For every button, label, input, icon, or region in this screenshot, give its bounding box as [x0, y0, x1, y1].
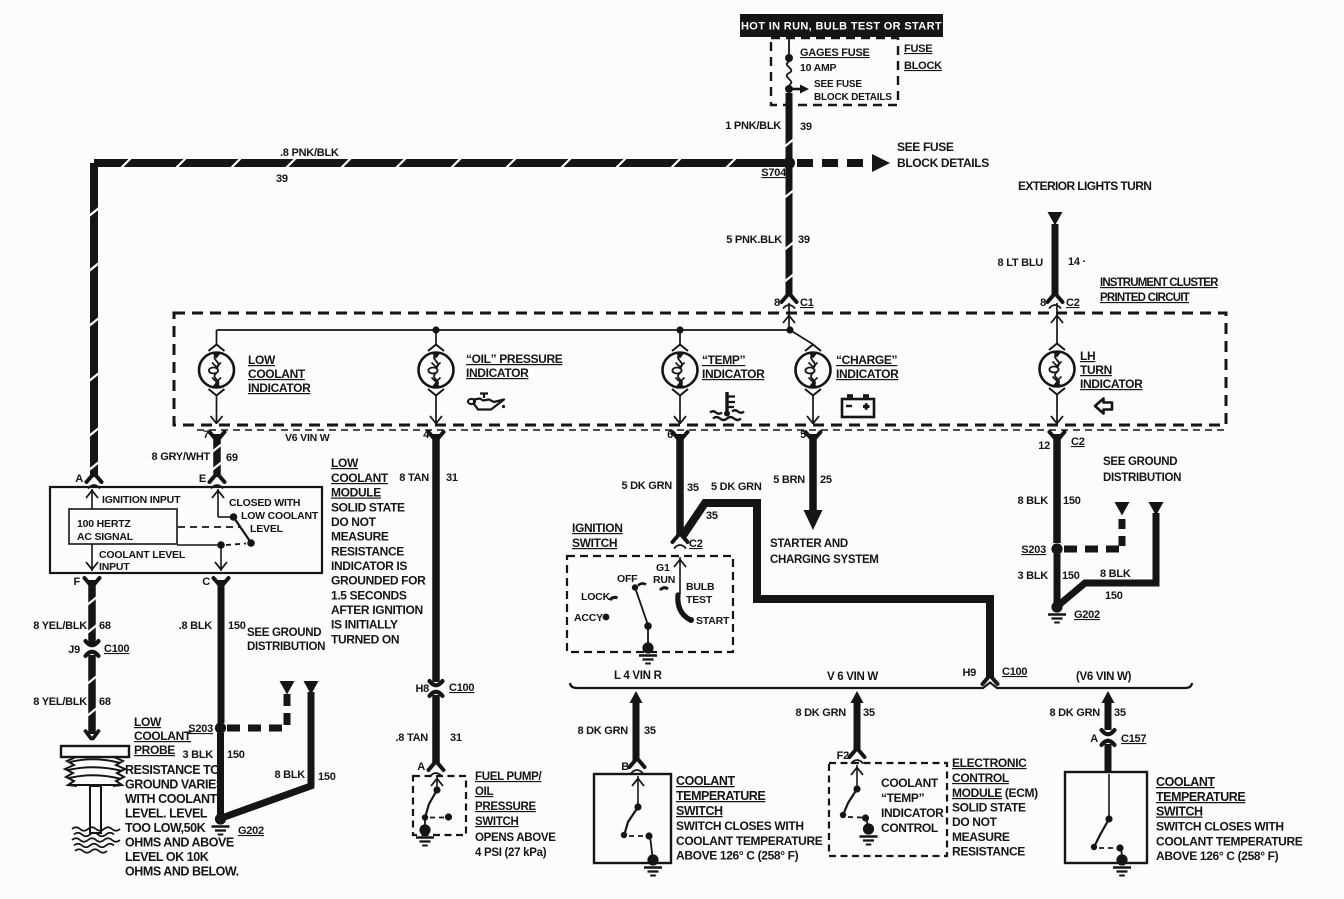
connector C2 pin 8 — [1040, 295, 1080, 309]
svg-text:LOW COOLANT: LOW COOLANT — [241, 510, 319, 522]
splice S203 left — [188, 722, 226, 735]
label LH TURN INDICATOR — [1080, 349, 1143, 391]
svg-text:150: 150 — [227, 749, 245, 761]
wire 8 BLK from G202 up to arrow — [223, 692, 314, 818]
lamp LOW COOLANT INDICATOR — [199, 330, 234, 424]
svg-text:8: 8 — [774, 297, 780, 309]
arrow see fuse block details (inside box) — [792, 85, 809, 94]
wire bus inside cluster — [217, 329, 791, 331]
ground at fuel pump switch — [416, 824, 434, 845]
svg-text:COOLANT TEMPERATURE: COOLANT TEMPERATURE — [676, 834, 823, 848]
wire inner box to C node — [177, 544, 220, 546]
svg-text:5 DK GRN: 5 DK GRN — [711, 481, 762, 493]
ground G202 left — [212, 813, 265, 837]
instrument cluster printed circuit dashed box — [174, 313, 1226, 425]
label 8 DK GRN 35 right — [1049, 707, 1125, 719]
svg-text:FUSE: FUSE — [904, 43, 932, 55]
electronic control module dashed box — [829, 763, 947, 856]
pin 6 connector at cluster — [667, 429, 687, 441]
svg-text:8 YEL/BLK: 8 YEL/BLK — [33, 696, 87, 708]
svg-text:A: A — [75, 473, 83, 485]
connector C100 J9 — [68, 641, 129, 656]
svg-text:C2: C2 — [1071, 436, 1085, 448]
svg-text:39: 39 — [800, 121, 812, 133]
svg-text:C2: C2 — [689, 538, 703, 550]
wire 3 BLK S203 to G202 — [217, 733, 224, 815]
svg-text:DO NOT: DO NOT — [952, 815, 998, 829]
svg-text:CHARGING SYSTEM: CHARGING SYSTEM — [770, 554, 879, 566]
arrow ground distribution right-1 — [1115, 502, 1130, 516]
svg-text:INPUT: INPUT — [99, 561, 130, 573]
label COOLANT TEMPERATURE SWITCH right — [1156, 775, 1303, 863]
svg-text:E: E — [199, 473, 206, 485]
svg-text:C100: C100 — [1002, 666, 1027, 678]
label 8 BLK 150 diag — [274, 769, 335, 783]
label 5 DK GRN 35 branch — [706, 481, 762, 522]
label G1 RUN — [653, 562, 675, 586]
wire 5 PNK.BLK (S704 to C1) — [784, 168, 794, 296]
svg-text:8 TAN: 8 TAN — [399, 472, 429, 484]
svg-text:RESISTANCE TO: RESISTANCE TO — [125, 763, 220, 777]
svg-text:5 BRN: 5 BRN — [773, 474, 805, 486]
label SEE GROUND DISTRIBUTION left — [247, 627, 325, 653]
svg-text:8 DK GRN: 8 DK GRN — [795, 707, 846, 719]
low coolant module box U1 — [50, 487, 322, 573]
svg-text:1.5 SECONDS: 1.5 SECONDS — [331, 589, 407, 603]
label IGNITION SWITCH — [572, 521, 623, 550]
svg-text:3 BLK: 3 BLK — [182, 749, 213, 761]
svg-text:8 DK GRN: 8 DK GRN — [577, 725, 628, 737]
svg-text:RESISTANCE: RESISTANCE — [331, 545, 404, 559]
svg-text:C100: C100 — [449, 682, 474, 694]
splice S704 — [783, 157, 795, 169]
lamp "TEMP" INDICATOR — [663, 330, 698, 424]
wire 8 TAN (pin 4 to H8) — [432, 434, 440, 682]
svg-text:3 BLK: 3 BLK — [1017, 570, 1048, 582]
pin 12 connector C2 at cluster — [1038, 432, 1084, 452]
svg-text:C1: C1 — [800, 297, 814, 309]
fuse block dashed box — [771, 38, 898, 105]
wire dashed to see fuse block details — [797, 154, 890, 172]
svg-text:SWITCH: SWITCH — [1156, 805, 1203, 819]
node fuse bottom — [785, 85, 793, 93]
svg-text:PRINTED CIRCUIT: PRINTED CIRCUIT — [1100, 292, 1190, 304]
svg-text:INDICATOR: INDICATOR — [1080, 377, 1143, 391]
icon oil can — [468, 394, 505, 410]
svg-text:31: 31 — [446, 472, 458, 484]
svg-text:IGNITION INPUT: IGNITION INPUT — [102, 494, 181, 506]
wire 5 DK GRN branch to H9 — [682, 503, 990, 678]
svg-text:GAGES FUSE: GAGES FUSE — [800, 47, 870, 59]
label .8 PNK/BLK 39 — [276, 147, 339, 185]
label FUEL PUMP/ OIL PRESSURE SWITCH — [475, 771, 556, 859]
svg-text:35: 35 — [687, 482, 699, 494]
label SEE FUSE BLOCK DETAILS (inside box) — [814, 79, 892, 103]
svg-text:LEVEL: LEVEL — [250, 523, 284, 535]
svg-text:“TEMP”: “TEMP” — [881, 791, 925, 805]
svg-text:G1: G1 — [656, 562, 670, 574]
svg-text:S203: S203 — [188, 723, 213, 735]
wire 8 DK GRN to coolant temp switch B — [630, 691, 643, 761]
svg-text:DO NOT: DO NOT — [331, 515, 377, 529]
svg-text:G202: G202 — [1074, 609, 1100, 621]
coolant temperature switch box left — [594, 774, 671, 863]
label 100 HERTZ AC SIGNAL — [77, 518, 134, 543]
bulb test to start arc — [678, 595, 690, 620]
svg-text:TEMPERATURE: TEMPERATURE — [676, 789, 765, 803]
pin A of low coolant module — [75, 473, 101, 489]
pin F of module — [74, 576, 100, 588]
arrow to ground distribution right — [304, 681, 319, 695]
pin C of module — [202, 576, 228, 588]
node fuse top — [785, 54, 793, 62]
connector C100 H8 — [415, 681, 474, 696]
svg-text:.8 TAN: .8 TAN — [395, 732, 428, 744]
svg-text:GROUNDED FOR: GROUNDED FOR — [331, 574, 426, 588]
label 5 DK GRN 35 — [621, 480, 698, 494]
svg-text:COOLANT TEMPERATURE: COOLANT TEMPERATURE — [1156, 835, 1303, 849]
svg-text:39: 39 — [798, 234, 810, 246]
module switch contact upper — [230, 513, 238, 521]
svg-text:4 PSI (27 kPa): 4 PSI (27 kPa) — [475, 847, 547, 859]
wire 8 LT BLU — [1052, 224, 1059, 296]
wire 5 DK GRN (pin 6 to ignition switch C2) — [676, 434, 684, 536]
svg-text:39: 39 — [276, 173, 288, 185]
fuel pump switch internals — [422, 777, 452, 827]
fuse GAGES FUSE element — [787, 62, 792, 85]
ground at coolant temp switch right — [1113, 854, 1131, 875]
wire 5 BRN (pin 5 to starter) — [809, 434, 817, 512]
svg-text:SOLID STATE: SOLID STATE — [331, 501, 405, 515]
svg-text:68: 68 — [99, 696, 111, 708]
wire stub to left arrow — [284, 694, 291, 725]
contact OFF — [632, 583, 646, 590]
wire 8 DK GRN to C157 — [1102, 691, 1115, 730]
label "OIL" PRESSURE INDICATOR — [466, 352, 563, 380]
svg-text:5 PNK.BLK: 5 PNK.BLK — [726, 234, 782, 246]
svg-text:31: 31 — [450, 732, 462, 744]
svg-text:SWITCH: SWITCH — [475, 816, 519, 828]
dashed link node to lower contact — [226, 544, 246, 546]
svg-text:25: 25 — [820, 474, 832, 486]
pin 7 connector at cluster — [203, 429, 224, 441]
svg-text:“CHARGE”: “CHARGE” — [836, 353, 898, 367]
svg-text:OHMS AND BELOW.: OHMS AND BELOW. — [125, 865, 239, 879]
svg-text:.8 PNK/BLK: .8 PNK/BLK — [280, 147, 339, 159]
svg-text:LOW: LOW — [134, 715, 162, 729]
svg-text:IS INITIALLY: IS INITIALLY — [331, 618, 398, 632]
wire .8 TAN (H8 to fuel pump switch) — [432, 695, 440, 764]
pin E of low coolant module — [199, 473, 225, 489]
splice S203 right — [1021, 543, 1062, 556]
label .8 BLK 150 — [179, 620, 246, 632]
svg-text:INDICATOR: INDICATOR — [466, 366, 529, 380]
svg-text:8 DK GRN: 8 DK GRN — [1049, 707, 1100, 719]
coolant temp switch internals right — [1091, 774, 1124, 857]
ignition switch feed lead — [674, 557, 686, 594]
svg-text:35: 35 — [644, 725, 656, 737]
svg-text:INDICATOR: INDICATOR — [836, 367, 899, 381]
engine harness line — [570, 683, 1192, 689]
svg-text:CLOSED WITH: CLOSED WITH — [229, 497, 300, 509]
svg-text:J9: J9 — [68, 644, 80, 656]
svg-text:ABOVE 126° C (258° F): ABOVE 126° C (258° F) — [676, 849, 799, 863]
wire 8 YEL/BLK upper (F to J9) — [87, 580, 97, 644]
svg-text:OFF: OFF — [617, 573, 638, 585]
wire 1 PNK/BLK (fuse to S704) — [784, 93, 794, 158]
module C lead down — [215, 545, 227, 571]
wire dashed S203 right to ground distribution — [1064, 546, 1125, 553]
svg-text:INSTRUMENT CLUSTER: INSTRUMENT CLUSTER — [1100, 277, 1219, 289]
label 1 PNK/BLK 39 — [725, 120, 812, 133]
lamp "OIL" PRESSURE INDICATOR — [419, 330, 454, 424]
connector C1 pin 8 — [774, 295, 814, 309]
svg-text:1 PNK/BLK: 1 PNK/BLK — [725, 120, 781, 132]
lamp "CHARGE" INDICATOR — [796, 345, 831, 425]
connector C2 at ignition switch — [673, 535, 703, 550]
svg-text:V 6 VIN W: V 6 VIN W — [827, 671, 878, 683]
svg-text:LEVEL OK 10K: LEVEL OK 10K — [125, 850, 209, 864]
svg-text:CONTROL: CONTROL — [952, 771, 1009, 785]
pin B of coolant temperature switch — [621, 760, 644, 774]
svg-text:C157: C157 — [1121, 733, 1146, 745]
svg-text:10 AMP: 10 AMP — [800, 62, 837, 74]
svg-text:MODULE (ECM): MODULE (ECM) — [952, 786, 1038, 800]
low coolant probe — [61, 731, 129, 853]
module ignition input lead — [86, 489, 98, 509]
svg-text:ELECTRONIC: ELECTRONIC — [952, 756, 1027, 770]
label SEE FUSE BLOCK DETAILS (right of S704) — [897, 140, 989, 170]
label "CHARGE" INDICATOR — [836, 353, 899, 381]
ignition switch arm — [635, 588, 652, 646]
ground at coolant temp switch left — [644, 854, 662, 875]
svg-text:STARTER AND: STARTER AND — [770, 538, 848, 550]
wire .8 PNK/BLK left vertical — [89, 163, 99, 477]
note ELECTRONIC CONTROL MODULE (ECM) — [952, 756, 1038, 859]
svg-text:SEE GROUND: SEE GROUND — [1103, 456, 1177, 468]
node bus at C1 entry — [786, 326, 793, 333]
ignition switch box — [567, 556, 733, 652]
svg-text:ACCY: ACCY — [574, 612, 603, 624]
svg-text:LOW: LOW — [248, 353, 276, 367]
svg-text:150: 150 — [228, 620, 246, 632]
wire 8 BLK from G202 right up to arrow — [1060, 513, 1156, 604]
note low coolant module solid state — [331, 456, 426, 647]
banner: HOT IN RUN, BULB TEST OR START — [740, 14, 943, 37]
svg-text:8: 8 — [1040, 297, 1046, 309]
svg-text:MEASURE: MEASURE — [952, 830, 1010, 844]
svg-text:OHMS AND ABOVE: OHMS AND ABOVE — [125, 836, 234, 850]
svg-text:SWITCH CLOSES WITH: SWITCH CLOSES WITH — [676, 819, 804, 833]
svg-text:SEE GROUND: SEE GROUND — [247, 627, 321, 639]
svg-text:BLOCK: BLOCK — [904, 60, 942, 72]
svg-text:SWITCH: SWITCH — [572, 536, 617, 550]
svg-text:SWITCH CLOSES WITH: SWITCH CLOSES WITH — [1156, 820, 1284, 834]
svg-text:OIL: OIL — [475, 786, 494, 798]
wire .8 PNK/BLK horizontal run — [94, 158, 784, 168]
wire 8 YEL/BLK lower (J9 to probe) — [87, 655, 97, 734]
label 8 YEL/BLK 68 lower — [33, 696, 111, 708]
svg-text:L 4 VIN R: L 4 VIN R — [614, 670, 663, 682]
svg-text:SEE FUSE: SEE FUSE — [814, 79, 862, 90]
label COOLANT "TEMP" INDICATOR CONTROL — [881, 776, 944, 835]
connector face thin dashed line below cluster — [197, 429, 1226, 431]
label BULB TEST — [686, 581, 715, 606]
module control dashed link — [178, 526, 240, 528]
label 8 GRY/WHT 69 — [152, 451, 238, 464]
label FUSE BLOCK — [904, 43, 942, 72]
svg-text:START: START — [696, 615, 730, 627]
svg-text:8 BLK: 8 BLK — [1100, 568, 1131, 580]
svg-text:COOLANT LEVEL: COOLANT LEVEL — [99, 549, 186, 561]
svg-text:14 ·: 14 · — [1068, 256, 1086, 268]
svg-text:TOO LOW,50K: TOO LOW,50K — [125, 821, 206, 835]
svg-text:69: 69 — [226, 452, 238, 464]
contact ACCY — [603, 614, 610, 621]
label LOW COOLANT PROBE — [134, 715, 192, 757]
contact LOCK — [610, 597, 618, 600]
wire C2 into cluster to LH turn lamp — [1056, 303, 1058, 343]
label 3 BLK 150 — [182, 749, 244, 761]
svg-text:DISTRIBUTION: DISTRIBUTION — [1103, 472, 1181, 484]
coolant temperature switch box right — [1065, 772, 1147, 863]
label 8 DK GRN 35 middle — [795, 707, 874, 719]
label .8 TAN 31 — [395, 732, 461, 744]
svg-text:F2: F2 — [837, 750, 849, 762]
svg-text:8 BLK: 8 BLK — [274, 769, 305, 781]
svg-text:35: 35 — [706, 510, 718, 522]
pin F2 of ECM — [837, 750, 865, 764]
connector C100 H9 on engine harness line — [962, 666, 1027, 684]
svg-text:G202: G202 — [238, 825, 264, 837]
label 8 YEL/BLK 68 upper — [33, 620, 111, 632]
svg-text:MODULE: MODULE — [331, 486, 381, 500]
wire 8 BLK (pin 12 to S203) — [1053, 434, 1061, 543]
node bus at oil lamp — [432, 326, 439, 333]
label 3 BLK 150 right — [1017, 570, 1079, 582]
label COOLANT TEMPERATURE SWITCH left — [676, 774, 823, 863]
svg-text:.8 BLK: .8 BLK — [179, 620, 213, 632]
ground G202 right — [1048, 601, 1100, 622]
svg-text:ABOVE 126° C (258° F): ABOVE 126° C (258° F) — [1156, 849, 1279, 863]
svg-text:C100: C100 — [104, 643, 129, 655]
svg-text:150: 150 — [318, 771, 336, 783]
svg-text:150: 150 — [1062, 570, 1080, 582]
node bus at temp lamp — [676, 326, 683, 333]
label 8 BLK 150 right — [1017, 495, 1080, 507]
svg-text:LH: LH — [1080, 349, 1095, 363]
ground at ECM — [860, 823, 878, 844]
wire 8 DK GRN to ECM F2 — [851, 691, 864, 751]
svg-text:150: 150 — [1063, 495, 1081, 507]
module coolant level lead — [86, 544, 98, 571]
label CLOSED WITH LOW COOLANT LEVEL — [229, 497, 319, 535]
svg-text:INDICATOR: INDICATOR — [881, 806, 944, 820]
contact RUN — [660, 588, 668, 590]
svg-text:COOLANT: COOLANT — [1156, 775, 1215, 789]
wire dashed S203 to ground distribution — [227, 725, 290, 732]
svg-text:68: 68 — [99, 620, 111, 632]
svg-text:MEASURE: MEASURE — [331, 530, 389, 544]
label 8 TAN 31 — [399, 472, 458, 484]
svg-text:HOT IN RUN, BULB TEST OR START: HOT IN RUN, BULB TEST OR START — [741, 21, 942, 33]
svg-text:(V6 VIN W): (V6 VIN W) — [1076, 671, 1132, 683]
svg-text:COOLANT: COOLANT — [881, 776, 939, 790]
svg-text:COOLANT: COOLANT — [248, 367, 306, 381]
module switch contact lower — [247, 539, 255, 547]
svg-text:BLOCK DETAILS: BLOCK DETAILS — [897, 156, 989, 170]
svg-text:100 HERTZ: 100 HERTZ — [77, 518, 131, 530]
label 5 PNK.BLK 39 — [726, 234, 810, 246]
svg-text:8 YEL/BLK: 8 YEL/BLK — [33, 620, 87, 632]
label 8 BLK 150 right diag — [1100, 568, 1131, 602]
svg-text:EXTERIOR LIGHTS TURN: EXTERIOR LIGHTS TURN — [1018, 179, 1151, 193]
svg-text:COOLANT: COOLANT — [331, 471, 389, 485]
module switch arm — [234, 517, 251, 542]
arrow ground distribution right-2 — [1149, 502, 1164, 516]
note low coolant probe resistance — [125, 763, 239, 879]
svg-text:AFTER IGNITION: AFTER IGNITION — [331, 603, 423, 617]
svg-text:TURN: TURN — [1080, 363, 1112, 377]
svg-text:LEVEL. LEVEL: LEVEL. LEVEL — [125, 807, 208, 821]
wire 8 GRY/WHT pin7 to module pin E — [212, 434, 222, 477]
svg-text:RUN: RUN — [653, 574, 675, 586]
label 8 LT BLU 14 — [998, 256, 1086, 269]
node at C lead — [217, 541, 225, 549]
svg-text:COOLANT: COOLANT — [134, 729, 192, 743]
coolant temp switch internals left — [621, 776, 653, 857]
svg-text:DISTRIBUTION: DISTRIBUTION — [247, 641, 325, 653]
svg-text:35: 35 — [1114, 707, 1126, 719]
svg-text:LOCK: LOCK — [581, 591, 611, 603]
svg-text:COOLANT: COOLANT — [676, 774, 735, 788]
svg-text:H8: H8 — [415, 683, 429, 695]
wire bus elbow to charge lamp — [790, 330, 813, 344]
icon left turn arrow — [1095, 399, 1112, 414]
svg-text:SWITCH: SWITCH — [676, 804, 723, 818]
ECM coolant temp control internals — [840, 765, 869, 826]
svg-text:SOLID STATE: SOLID STATE — [952, 801, 1026, 815]
pin 5 connector at cluster — [800, 429, 820, 441]
pin A of fuel pump switch — [417, 761, 443, 777]
svg-text:BULB: BULB — [686, 581, 715, 593]
wire 3 BLK S203 to G202 right — [1054, 554, 1061, 603]
wire C1 into cluster — [788, 303, 790, 330]
svg-text:V6 VIN W: V6 VIN W — [285, 432, 330, 444]
svg-text:S704: S704 — [761, 167, 787, 179]
label SEE GROUND DISTRIBUTION right — [1103, 456, 1181, 484]
label COOLANT LEVEL INPUT — [99, 549, 186, 573]
svg-text:12: 12 — [1038, 440, 1050, 452]
ground at ignition switch — [639, 642, 657, 663]
wire .8 BLK (module C to S203) — [218, 580, 225, 723]
pin 4 connector at cluster — [423, 429, 443, 441]
wire C157 to switch — [1105, 744, 1112, 772]
svg-text:C2: C2 — [1066, 297, 1080, 309]
label 5 BRN 25 — [773, 474, 832, 486]
svg-text:BLOCK DETAILS: BLOCK DETAILS — [814, 92, 892, 103]
svg-text:8 GRY/WHT: 8 GRY/WHT — [152, 451, 211, 463]
svg-text:LOW: LOW — [331, 456, 359, 470]
icon battery — [842, 396, 874, 417]
wire into fuse — [788, 39, 790, 56]
label LOW COOLANT INDICATOR — [248, 353, 311, 395]
module switch lead from E — [212, 489, 230, 517]
svg-text:PROBE: PROBE — [134, 743, 175, 757]
svg-text:C: C — [202, 576, 210, 588]
svg-text:IGNITION: IGNITION — [572, 521, 623, 535]
wire stub to arrow left — [1119, 515, 1126, 546]
